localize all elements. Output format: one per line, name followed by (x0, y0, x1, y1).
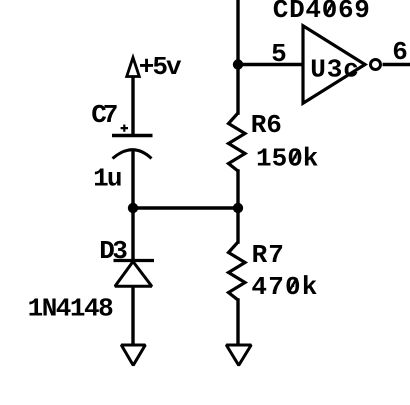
resistor R7 zigzag (229, 242, 246, 300)
svg-text:CD4069: CD4069 (273, 0, 371, 25)
capacitor C7 curved bottom plate (113, 150, 152, 159)
svg-text:R7: R7 (252, 240, 285, 270)
junction cap/diode node (128, 203, 138, 213)
wire D3 anode to left ground (131, 287, 134, 344)
wire top net down to U3c input junction and R6 (236, 0, 239, 113)
wire pin 6 output (383, 63, 410, 66)
svg-text:5: 5 (271, 39, 287, 69)
resistor R6 zigzag (229, 113, 246, 171)
inverter U3c bubble (371, 60, 381, 70)
ground symbol right (under R7) (226, 345, 251, 365)
svg-text:1u: 1u (93, 164, 121, 194)
capacitor C7 polarity plus mark (121, 125, 128, 132)
slash of zero in 150k (291, 150, 299, 164)
wire divider node horizontal to cap/diode node (133, 206, 238, 209)
junction divider node (233, 203, 243, 213)
wire R7 bottom to right ground (236, 300, 239, 343)
wire node down to D3 cathode bar (131, 208, 134, 259)
diode D3 cathode bar (114, 259, 155, 262)
svg-text:6: 6 (392, 37, 408, 67)
capacitor C7 top plate (112, 134, 153, 137)
wire R6 bottom through divider node to R7 top (236, 171, 239, 242)
svg-text:R6: R6 (251, 110, 282, 140)
power +5V arrow (127, 58, 140, 77)
wire +5V arrow down to C7 top plate (131, 77, 134, 136)
svg-text:C7: C7 (91, 100, 116, 130)
svg-text:150k: 150k (256, 144, 318, 174)
svg-text:1N4148: 1N4148 (28, 294, 114, 324)
svg-text:U3c: U3c (310, 55, 360, 85)
svg-text:D3: D3 (99, 236, 127, 266)
ground symbol left (under D3) (121, 345, 145, 365)
svg-text:470k: 470k (251, 272, 318, 302)
slash of zero in CD4069 (326, 1, 334, 15)
diode D3 triangle (anode) (115, 262, 152, 287)
wire pin 5 from junction to inverter input (238, 63, 302, 66)
slash of zero in 470k (289, 278, 297, 292)
svg-text:+5v: +5v (139, 52, 182, 82)
wire C7 bottom plate to node (131, 152, 134, 209)
junction U3c input node (233, 59, 243, 69)
inverter U3c triangle body (303, 26, 365, 103)
